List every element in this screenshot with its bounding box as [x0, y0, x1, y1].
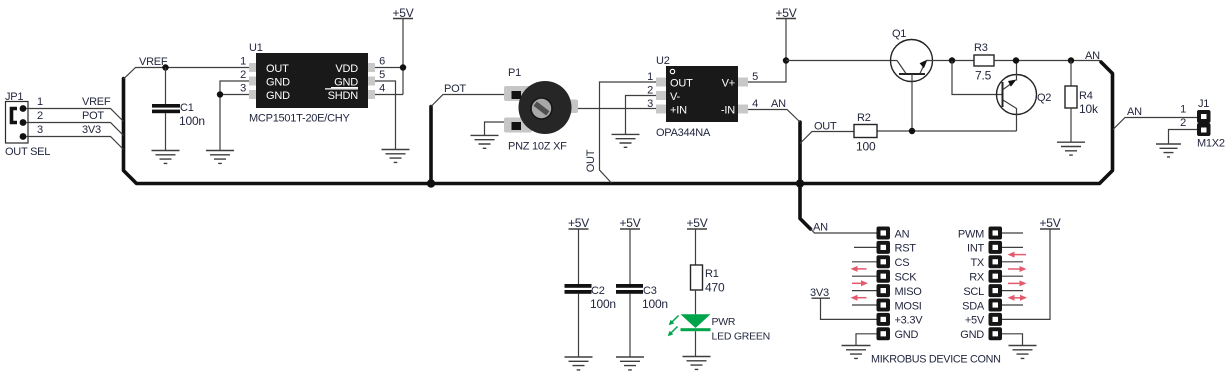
wire stub MISO — [852, 290, 877, 292]
wire U2 pin4 AN to bus — [748, 110, 800, 123]
ground C1 — [152, 151, 180, 164]
wire stub SCL right — [1002, 290, 1023, 292]
svg-text:SCL: SCL — [963, 286, 984, 298]
ground J1 — [1156, 144, 1181, 157]
wire GND pin right to ground — [1002, 334, 1023, 346]
svg-text:R2: R2 — [857, 112, 871, 124]
capacitor C2 — [565, 284, 592, 294]
wire U1 pin2 — [220, 81, 249, 95]
svg-text:6: 6 — [379, 56, 385, 68]
svg-text:+5V: +5V — [392, 6, 413, 20]
svg-text:470: 470 — [705, 281, 725, 295]
svg-text:3V3: 3V3 — [810, 287, 829, 299]
svg-text:+IN: +IN — [670, 105, 687, 117]
LED light arrow 2 — [668, 327, 678, 337]
svg-text:M1X2: M1X2 — [1197, 138, 1225, 150]
svg-text:VREF: VREF — [82, 96, 111, 108]
wire stub CS — [852, 261, 877, 263]
svg-text:1: 1 — [240, 56, 246, 68]
svg-text:2: 2 — [37, 110, 43, 122]
wire AN from bus to mikrobus AN pin — [811, 229, 877, 233]
wire R2 output — [877, 130, 1017, 132]
node VREF junction — [162, 64, 168, 70]
node Q1 emitter / Q2 base junction — [949, 57, 955, 63]
wire +5V vertical down to pin4 — [402, 19, 404, 95]
power +5V (R1) — [686, 216, 707, 230]
junction on bus at AN branch — [796, 179, 804, 187]
power +5V (U2) — [775, 6, 796, 20]
svg-text:MISO: MISO — [895, 286, 923, 298]
svg-text:RX: RX — [969, 272, 985, 284]
arrow SPI in 2 (left) — [851, 295, 867, 301]
svg-text:MCP1501T-20E/CHY: MCP1501T-20E/CHY — [249, 113, 350, 125]
connector J1 — [1197, 110, 1211, 136]
wire +5V to Q1 — [786, 60, 897, 62]
svg-text:PNZ 10Z XF: PNZ 10Z XF — [508, 141, 567, 153]
connector JP1 — [6, 102, 29, 144]
ground P1 — [471, 135, 499, 148]
svg-text:MIKROBUS DEVICE CONN: MIKROBUS DEVICE CONN — [871, 354, 1001, 366]
wire stub INT right — [1002, 246, 1023, 248]
svg-text:MOSI: MOSI — [895, 300, 922, 312]
node pin6 +5V junction — [400, 64, 406, 70]
svg-text:U2: U2 — [656, 55, 670, 67]
arrow SPI out (right) — [852, 280, 868, 286]
svg-text:7.5: 7.5 — [975, 69, 992, 83]
capacitor C3 — [616, 284, 643, 294]
svg-text:AN: AN — [1127, 106, 1142, 118]
svg-text:PWR: PWR — [712, 316, 736, 328]
svg-text:GND: GND — [266, 90, 290, 102]
arrow SDA (double) — [1008, 295, 1028, 301]
wire JP1 pin1 to bus — [26, 109, 124, 122]
wire stub TX right — [1002, 261, 1023, 263]
LED light arrow 1 — [669, 316, 679, 326]
wire P1 wiper to U2 pin3 — [578, 108, 656, 110]
svg-text:5: 5 — [752, 71, 758, 83]
svg-text:OPA344NA: OPA344NA — [656, 127, 711, 139]
header MIKROBUS left column pins — [877, 227, 891, 341]
svg-text:OUT: OUT — [266, 63, 289, 75]
svg-text:1: 1 — [647, 71, 653, 83]
svg-text:OUT: OUT — [670, 78, 693, 90]
svg-text:+5V: +5V — [619, 216, 640, 230]
svg-text:Q2: Q2 — [1037, 92, 1051, 104]
svg-text:P1: P1 — [508, 67, 521, 79]
svg-text:100n: 100n — [590, 297, 616, 311]
wire JP1 pin3 to bus — [26, 137, 124, 150]
wire U2 pin2 to ground — [626, 96, 657, 135]
LED PWR green — [681, 314, 711, 331]
IC U2 OPA344NA — [656, 66, 748, 122]
wire C3 bottom — [629, 294, 631, 357]
transistor Q2 — [997, 61, 1037, 132]
wire stub RX right — [1002, 275, 1023, 277]
transistor Q1 — [891, 40, 933, 82]
wire R4 bottom — [1070, 108, 1072, 142]
node U1 pin2/3 junction — [217, 91, 223, 97]
wire stub PWM right — [1002, 232, 1023, 234]
wire U1 pin4 — [375, 94, 403, 96]
svg-text:100n: 100n — [179, 114, 205, 128]
bus main thick line — [124, 62, 1113, 184]
resistor R4 — [1065, 86, 1077, 108]
wire stub RST — [854, 246, 877, 248]
wire stub SDA right — [1002, 304, 1023, 306]
svg-text:Q1: Q1 — [892, 28, 906, 40]
svg-text:INT: INT — [967, 243, 985, 255]
svg-text:4: 4 — [379, 83, 385, 95]
resistor R2 — [854, 125, 877, 138]
bus branch POT — [429, 107, 433, 184]
wire Q1 emitter to R3 — [926, 60, 974, 62]
node R2 / Q1 base junction — [909, 128, 915, 134]
svg-text:R1: R1 — [705, 268, 719, 280]
svg-text:SHDN: SHDN — [328, 90, 359, 102]
power +5V (C3) — [619, 216, 640, 230]
svg-text:AN: AN — [813, 222, 828, 234]
svg-text:AN: AN — [1085, 50, 1100, 62]
wire stub MOSI — [852, 304, 877, 306]
power +5V (C2) — [568, 216, 589, 230]
arrow SPI in (left) — [851, 266, 867, 272]
svg-text:C1: C1 — [180, 102, 194, 114]
svg-text:+3.3V: +3.3V — [895, 315, 924, 327]
svg-text:5: 5 — [379, 69, 385, 81]
ground R4 — [1057, 142, 1085, 155]
svg-text:R4: R4 — [1079, 90, 1093, 102]
ground C2 — [565, 357, 593, 370]
svg-text:C2: C2 — [591, 285, 605, 297]
svg-text:JP1: JP1 — [5, 91, 23, 103]
wire LED to ground — [695, 331, 697, 356]
wire C1 top — [165, 68, 167, 105]
svg-text:1: 1 — [37, 96, 43, 108]
svg-text:OUT SEL: OUT SEL — [5, 146, 50, 158]
wire Q1 base down to R2 net — [911, 74, 913, 131]
wire +5V pin right — [1002, 229, 1050, 319]
IC U1 MCP1501 — [249, 53, 375, 108]
wire U1 pin3 — [220, 95, 249, 151]
arrow INT (left) — [1008, 252, 1027, 258]
svg-text:RST: RST — [895, 243, 917, 255]
svg-text:LED GREEN: LED GREEN — [712, 331, 770, 343]
node +5V / Q1 wire junction — [783, 57, 789, 63]
svg-text:4: 4 — [752, 98, 758, 110]
ground mikrobus right — [1009, 346, 1037, 359]
capacitor C1 — [152, 104, 180, 113]
ground mikrobus left — [842, 346, 871, 359]
wire OUT from U2 pin1 down to bus — [600, 82, 657, 183]
wire stub SCK — [852, 275, 877, 277]
svg-text:SDA: SDA — [962, 300, 985, 312]
wire GND pin left to ground — [856, 334, 877, 346]
svg-text:2: 2 — [240, 69, 246, 81]
wire U2 pin5 to +5V — [748, 19, 786, 83]
svg-text:GND: GND — [960, 329, 984, 341]
svg-text:PWM: PWM — [958, 228, 984, 240]
svg-text:3: 3 — [37, 124, 43, 136]
svg-text:VDD: VDD — [335, 63, 358, 75]
svg-text:+5V: +5V — [965, 315, 985, 327]
ground U1 pin5 — [382, 150, 410, 163]
wire OUT tap from bus to R2 — [800, 132, 854, 144]
header MIKROBUS right column pins — [989, 227, 1003, 341]
node AN / R4 junction — [1068, 57, 1074, 63]
svg-text:C3: C3 — [643, 285, 657, 297]
svg-text:10k: 10k — [1079, 102, 1099, 116]
svg-text:AN: AN — [895, 228, 910, 240]
svg-text:+5V: +5V — [1039, 216, 1060, 230]
wire C2 bottom — [578, 294, 580, 357]
svg-text:J1: J1 — [1198, 98, 1209, 110]
svg-text:3: 3 — [647, 98, 653, 110]
wire J1 pin2 to ground — [1169, 130, 1198, 145]
svg-text:SCK: SCK — [895, 272, 918, 284]
wire U1 pin5 to ground — [375, 81, 396, 150]
wire 3V3 to +3.3V pin — [821, 298, 877, 319]
wire P1 bottom pad to ground — [485, 122, 505, 135]
svg-text:2: 2 — [1180, 117, 1186, 129]
ground C3 — [616, 357, 644, 370]
ground U2 pin2 — [612, 134, 640, 147]
svg-text:3: 3 — [240, 83, 246, 95]
wire R4 top — [1070, 61, 1072, 87]
wire C1 bottom — [165, 113, 167, 150]
svg-text:3V3: 3V3 — [82, 124, 101, 136]
ground LED — [683, 357, 711, 370]
wire C3 top — [629, 229, 631, 284]
svg-text:POT: POT — [444, 83, 466, 95]
svg-text:+5V: +5V — [686, 216, 707, 230]
resistor R1 — [691, 265, 703, 290]
power +5V (mikrobus) — [1039, 216, 1060, 230]
svg-text:GND: GND — [334, 77, 358, 89]
svg-text:POT: POT — [82, 110, 104, 122]
wire VREF from bus to U1 pin1 — [124, 68, 250, 80]
power +5V (U1) — [392, 6, 413, 20]
svg-text:2: 2 — [647, 85, 653, 97]
ground U1 pins 2,3 — [206, 151, 234, 164]
bus branch AN vertical — [800, 122, 811, 229]
svg-text:+5V: +5V — [568, 216, 589, 230]
svg-text:TX: TX — [970, 257, 984, 269]
svg-text:R3: R3 — [974, 42, 988, 54]
svg-text:100n: 100n — [642, 297, 668, 311]
svg-text:V-: V- — [670, 91, 681, 103]
resistor R3 — [974, 55, 994, 66]
potentiometer P1 — [504, 81, 578, 134]
svg-text:GND: GND — [266, 77, 290, 89]
svg-text:U1: U1 — [249, 42, 263, 54]
wire C2 top — [578, 229, 580, 284]
wire R3 right to AN node — [994, 60, 1100, 62]
svg-text:GND: GND — [895, 329, 919, 341]
svg-text:100: 100 — [856, 140, 876, 154]
wire R1 to LED — [695, 290, 697, 314]
wire AN tap to J1 pin1 — [1113, 118, 1197, 130]
svg-text:-IN: -IN — [721, 105, 735, 117]
svg-text:CS: CS — [895, 257, 910, 269]
arrow RX (right) — [1008, 280, 1027, 286]
svg-text:AN: AN — [771, 98, 786, 110]
wire U1 pin6 to +5V — [375, 67, 403, 69]
wire POT from bus to P1 — [431, 95, 504, 107]
wire R1 top — [695, 229, 697, 265]
svg-text:1: 1 — [1180, 104, 1186, 116]
node R3 / Q2 emitter junction — [1013, 57, 1019, 63]
svg-text:OUT: OUT — [814, 121, 837, 133]
wire Q2 base — [952, 61, 1002, 95]
junction on bus at POT branch — [427, 179, 435, 187]
svg-text:OUT: OUT — [585, 149, 597, 172]
svg-text:+5V: +5V — [775, 6, 796, 20]
wire JP1 pin2 to bus — [26, 123, 124, 136]
svg-text:V+: V+ — [722, 78, 735, 90]
arrow TX (right) — [1008, 266, 1027, 272]
